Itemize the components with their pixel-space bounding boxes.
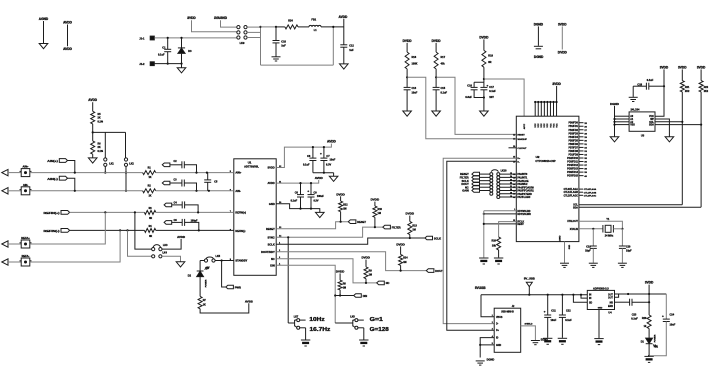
ground below C20 [618,262,627,264]
svg-text:10k: 10k [492,244,497,247]
svg-text:10uF: 10uF [412,92,418,95]
wires header to U2 PA pins [500,173,517,175]
svg-text:DVDD: DVDD [432,39,442,43]
svg-text:VCC: VCC [649,116,654,118]
svg-text:1M: 1M [403,261,406,264]
svg-text:C19: C19 [586,246,591,249]
svg-text:SCL: SCL [573,205,578,207]
connector arrow REFA- row [2,259,8,265]
connector arrow AIN+ row [2,169,8,175]
svg-text:PA1/INT1: PA1/INT1 [517,176,528,179]
link LK9 3-pin jumper block [237,26,240,29]
flag DIN [354,294,362,298]
svg-text:ERR: ERR [608,306,613,308]
ground below C13 [403,111,412,116]
svg-text:3: 3 [492,328,493,330]
svg-text:3VDD: 3VDD [678,65,687,69]
wire REFIN- line [70,229,145,231]
svg-text:19: 19 [513,146,515,148]
svg-text:AVDD: AVDD [63,47,72,51]
pin CLKOUT of U2 [509,147,517,149]
svg-text:CTL1/FLAGB: CTL1/FLAGB [564,191,579,194]
svg-text:PA3/WU2: PA3/WU2 [517,183,528,186]
svg-text:AVDD: AVDD [268,181,275,185]
resistor R3 0R [144,210,155,214]
svg-text:AVCC: AVCC [523,123,526,129]
link LK3 [152,248,155,251]
wire AVDD pin to tie [276,180,319,183]
svg-text:U3: U3 [641,134,645,138]
wire GND pin to ground [276,204,320,213]
wire RESV to node [484,223,517,225]
svg-text:AVSS: AVSS [245,299,253,303]
svg-text:3VDD: 3VDD [697,65,706,69]
svg-text:0.1uF: 0.1uF [158,53,165,56]
svg-text:PWR: PWR [235,285,241,289]
wire U3 address pins to ground [614,106,616,137]
svg-text:DVDD: DVDD [558,50,568,54]
svg-text:R22: R22 [704,86,709,89]
svg-text:2K: 2K [98,117,101,120]
svg-text:24: 24 [510,175,512,178]
wire R3 to U1 REFIN+ [156,211,234,213]
svg-text:POWER: POWER [206,279,208,287]
svg-text:22: 22 [510,183,512,185]
svg-text:R14: R14 [403,257,408,260]
svg-text:100K: 100K [412,62,418,65]
svg-text:1uF: 1uF [281,45,286,48]
capacitor C10 1uF [275,26,277,28]
svg-text:VCC: VCC [544,123,546,128]
wire REFIN+ to LK3 [135,212,152,249]
svg-text:REFIN(-): REFIN(-) [235,230,245,233]
svg-text:G=128: G=128 [370,327,389,333]
wire branch3 to U2 AVCC [484,79,524,116]
svg-text:18: 18 [510,196,512,198]
svg-text:DGND: DGND [610,102,620,106]
svg-text:0.1uF: 0.1uF [303,164,310,167]
svg-text:VBUS: VBUS [496,317,503,319]
svg-text:LK4: LK4 [162,251,167,254]
svg-text:6.8uF: 6.8uF [465,96,472,99]
svg-text:20: 20 [510,189,512,191]
wire U3 WP to ground [655,119,669,137]
svg-text:24LC64: 24LC64 [631,109,641,112]
flag PWR [222,261,226,288]
svg-text:R21: R21 [685,86,690,89]
diode D3 [181,38,183,48]
svg-text:C24: C24 [670,313,675,316]
svg-text:DVDD: DVDD [371,198,380,202]
svg-text:DVDD: DVDD [396,242,405,246]
label G=128 [358,327,364,329]
svg-text:10uF: 10uF [330,159,336,162]
ground below D1 [644,355,653,357]
ground below RDY node [479,257,488,259]
svg-text:1: 1 [492,315,493,317]
svg-text:DGND: DGND [534,55,544,59]
svg-text:5V_USB: 5V_USB [524,277,535,281]
svg-text:STANDBY: STANDBY [235,260,247,263]
svg-text:R12: R12 [343,203,348,206]
svg-text:10V: 10V [489,96,494,99]
svg-text:POWER: POWER [655,334,657,342]
svg-text:OUT: OUT [608,297,613,299]
svg-text:2: 2 [492,322,493,324]
svg-text:LK1: LK1 [109,162,114,165]
svg-text:42: 42 [513,133,515,136]
flag NC [377,281,385,285]
ground below LK7 [301,339,310,341]
wire DPLUS from U2 to J2 [443,158,516,323]
wire GND pin to DGND [480,345,494,358]
wire LK9 outputs to AVDD node [247,26,260,28]
ground DGND symbol [534,45,543,47]
wire R1 to U1 AIN+ [156,172,234,174]
svg-text:C16: C16 [467,84,472,87]
label G=1 [358,319,364,321]
capacitor C8 0.1uF [312,147,314,158]
wire RDY1 to pulldown node [484,213,517,215]
svg-text:+: + [320,152,322,156]
svg-text:AIN+: AIN+ [23,165,29,169]
svg-text:1M: 1M [378,212,381,215]
svg-text:LK2: LK2 [129,162,134,165]
svg-text:PB3/FD3: PB3/FD3 [568,133,578,135]
wire U3 SCL [655,121,682,123]
ground below U3 A-pins [610,137,619,142]
svg-text:C10: C10 [281,40,286,43]
svg-text:AVDD: AVDD [88,98,97,102]
ground AGND below LK4 [176,262,185,267]
svg-text:0.1uF: 0.1uF [631,318,638,321]
svg-text:6.3V: 6.3V [314,200,319,203]
svg-text:AIN-: AIN- [23,183,28,187]
svg-text:AVDD: AVDD [339,15,348,19]
svg-text:+: + [662,314,664,318]
svg-text:OUT: OUT [608,294,613,296]
svg-text:DGND: DGND [534,22,544,26]
svg-text:43k: 43k [441,62,446,65]
resistor R20 1k [648,294,650,315]
svg-text:2K2: 2K2 [685,90,690,93]
flag and capacitor C3 on AIN- [162,181,170,185]
svg-text:CTL2/FLAGC: CTL2/FLAGC [584,194,597,197]
svg-text:DOUT: DOUT [435,269,443,273]
svg-text:+: + [307,189,309,193]
svg-text:IN: IN [589,294,592,296]
ground below C15 [432,111,441,116]
svg-text:SDA: SDA [573,206,578,209]
wire STANDBY to LK5 [215,260,234,262]
wire LK8 to ground [363,328,365,340]
resistor R6 2K 0.1% [91,141,95,154]
led D1 POWER [648,329,650,339]
svg-text:D-: D- [496,324,499,326]
svg-text:DIN: DIN [363,294,368,298]
capacitor C15 0.1uF [435,77,437,87]
flag and capacitor C2 on AIN+ [162,163,170,167]
resistor R16 10k [497,237,501,250]
svg-text:R16: R16 [492,240,497,243]
svg-text:REFIN(+): REFIN(+) [44,211,60,215]
ground below J2 [476,360,485,362]
testpoint REFA- [21,258,30,266]
svg-text:PB6/FD6: PB6/FD6 [568,144,578,146]
capacitor C19 10pF [592,229,594,246]
svg-text:PA7/FLAGD: PA7/FLAGD [517,196,530,199]
svg-text:RDY1/SLWR: RDY1/SLWR [517,214,531,216]
svg-text:0.1uF: 0.1uF [489,90,496,93]
link LK1 [104,132,106,158]
resistor R7 1K [198,296,202,308]
svg-text:PA0/INT0: PA0/INT0 [517,173,528,176]
svg-text:16.7Hz: 16.7Hz [310,327,331,333]
flag and capacitor C4 on REFIN+ [164,203,172,207]
svg-text:+: + [487,83,489,87]
svg-text:DIN: DIN [270,263,275,267]
capacitor C22 0.1uF [561,295,563,315]
svg-text:3VDD: 3VDD [645,281,654,285]
svg-text:NC: NC [271,257,275,261]
svg-text:1M: 1M [412,229,415,232]
ground below C11 [543,337,552,339]
svg-text:G=1: G=1 [370,317,383,323]
svg-text:0.1uF: 0.1uF [291,200,298,203]
wire REFA+ to REFIN+ line [30,212,106,244]
svg-text:1K: 1K [203,303,206,306]
wire SVDD to AVDD tie [276,144,331,168]
svg-text:+: + [544,310,546,314]
svg-text:U2: U2 [536,155,540,159]
svg-text:DVDD: DVDD [336,269,345,273]
capacitor C12 1uF [340,44,347,46]
wire RDY0 to pulldown node [484,210,517,212]
svg-text:DVDD: DVDD [336,192,345,196]
svg-text:VCC: VCC [547,123,549,128]
flag FILTER [383,225,391,229]
svg-text:PB7/FD7: PB7/FD7 [568,147,578,149]
svg-text:C23: C23 [632,314,637,317]
resistor R18 100K [406,43,408,52]
svg-text:PA2/SLOE: PA2/SLOE [517,180,529,183]
svg-text:C20: C20 [626,246,631,249]
svg-text:PD2/FD10: PD2/FD10 [567,158,578,160]
svg-text:5VUSB: 5VUSB [475,286,486,290]
svg-text:REFIN(-): REFIN(-) [44,229,60,233]
svg-text:PB2/FD2: PB2/FD2 [568,130,578,132]
ground below U4 [594,338,603,340]
wire R7 to AVSS [200,303,249,313]
wire R4 to U1 REFIN- [156,229,234,231]
svg-text:PB4/FD4: PB4/FD4 [568,136,578,139]
svg-text:AIN(+): AIN(+) [47,159,58,163]
svg-text:XTALIN: XTALIN [570,228,578,231]
svg-text:GAIN: GAIN [462,189,469,193]
svg-text:NR: NR [610,302,614,304]
svg-text:SDA: SDA [649,124,654,127]
svg-text:SHIELD: SHIELD [524,324,532,326]
wire AIN+ line [30,172,143,174]
svg-text:VSS: VSS [630,125,635,127]
wire ID pin [480,338,494,345]
svg-text:DVDD: DVDD [403,39,413,43]
svg-text:C12: C12 [349,45,354,48]
svg-text:2K2: 2K2 [704,90,709,93]
wire IN2 pin of U4 [581,295,587,298]
svg-text:C22: C22 [566,309,571,312]
wire return loop bottom [261,64,334,66]
svg-text:PD5/FD13: PD5/FD13 [567,169,578,171]
svg-text:LK3: LK3 [163,244,168,247]
resistor R5 2K 0.1% [91,111,95,124]
adc U1 AD7730/30L [234,159,276,275]
svg-text:J1-2: J1-2 [139,62,145,66]
svg-text:REFIN(+): REFIN(+) [235,212,246,215]
flag DOUT [426,269,434,273]
wire U3 SDA [655,124,701,126]
svg-text:1K: 1K [148,176,151,179]
flag RESET [348,220,356,224]
svg-text:CY7C68013-CSP: CY7C68013-CSP [535,159,556,163]
svg-text:PB5/FD5: PB5/FD5 [568,140,578,142]
svg-text:PD6/FD14: PD6/FD14 [567,171,578,174]
ground below C16 C17 [483,98,485,112]
svg-text:LK5: LK5 [216,255,221,258]
svg-text:CTL1/FLAGB: CTL1/FLAGB [584,191,597,194]
wire OUT rail [615,293,667,295]
svg-text:LK8: LK8 [350,316,355,319]
wire SCL vertical [681,92,683,205]
svg-text:CTL2/FLAGC: CTL2/FLAGC [564,194,579,197]
svg-text:SCL: SCL [649,122,654,124]
svg-text:DOUT/RDY: DOUT/RDY [261,250,275,254]
svg-text:R24: R24 [288,19,293,22]
svg-text:VCC: VCC [553,123,555,128]
svg-text:ADP3303-3.3: ADP3303-3.3 [593,286,609,290]
testpoint AIN- [21,187,30,195]
svg-text:VCC: VCC [550,123,552,128]
svg-text:0.1uF: 0.1uF [565,319,572,322]
svg-text:24 MHz: 24 MHz [605,234,614,237]
svg-text:RESET: RESET [266,227,275,231]
connector arrow REFA+ row [2,241,8,247]
wire DIN net [276,265,335,323]
svg-text:3VAGND: 3VAGND [214,16,228,20]
svg-text:SYNC: SYNC [267,235,274,239]
svg-text:VCC: VCC [541,123,543,128]
wire REFIN- to LK4 [128,230,152,256]
ground below C18 [632,86,634,97]
svg-text:R10: R10 [378,208,383,211]
svg-text:3VDD: 3VDD [187,16,196,20]
ground below C6 C9 [316,212,325,217]
capacitor C20 10pF [621,229,623,246]
svg-text:C11: C11 [551,309,556,312]
svg-text:U1: U1 [248,160,252,164]
svg-text:25: 25 [510,173,512,175]
svg-text:RESET: RESET [517,135,525,137]
svg-text:19: 19 [510,192,512,194]
svg-text:DVDD: DVDD [361,256,370,260]
flag SCLK [425,236,433,240]
svg-text:IN: IN [589,298,592,300]
svg-text:R20: R20 [642,317,647,320]
ground below R6 [88,158,97,163]
wire LK5 to D2 [200,260,204,262]
label 16.7Hz [300,327,306,329]
svg-text:SCLK: SCLK [268,242,275,246]
wire LK3 to AVDD tie [162,239,181,249]
svg-text:PA4/FIFOADR0: PA4/FIFOADR0 [517,186,534,189]
svg-text:WAKEUP: WAKEUP [517,138,527,141]
svg-text:PD1/FD9: PD1/FD9 [568,154,578,156]
resistor R1 1K [143,171,156,175]
capacitor C24 10uF [665,294,667,319]
svg-text:PB1/FD1: PB1/FD1 [568,126,578,128]
ground AGND below C12 [340,64,349,69]
svg-text:PD0/FD8: PD0/FD8 [568,151,578,153]
wire NC net [276,259,377,283]
svg-text:0.1uF: 0.1uF [441,92,448,95]
ground below R16 [494,257,503,259]
svg-text:R13: R13 [412,224,417,227]
wire branch1 to U2 WAKEUP [407,77,516,138]
svg-text:AD7730/30L: AD7730/30L [244,165,259,169]
pins PB and PD of U2 right side [579,122,584,124]
resistor R4 0R [144,228,155,232]
svg-text:SVDD: SVDD [267,166,274,170]
svg-text:REFA-: REFA- [22,254,30,258]
wire divider mid node [93,131,126,133]
wire decoupling rail to ground [313,172,334,174]
label 10Hz [300,319,306,321]
ground below shield [531,340,540,342]
svg-text:AGND: AGND [39,17,49,21]
resistor R2 1K [143,189,156,193]
svg-text:C13: C13 [412,87,417,90]
wire LK7 to ground [305,328,307,340]
svg-text:LK9: LK9 [240,42,245,45]
wire 3VAGND to LK9 row1 [221,20,237,27]
capacitor C16 6.8uF [474,79,484,87]
wire 5V rail [481,294,587,296]
wire VBUS drop [481,295,494,317]
wire FILTER to LK7 switch [287,237,289,323]
wire L1 to AVDD node [321,26,344,28]
svg-text:1K: 1K [148,194,151,197]
wire SDA vertical [700,92,702,207]
ground below LK8 [359,339,368,341]
svg-text:0R: 0R [149,235,152,238]
svg-text:LK10: LK10 [501,169,508,172]
svg-text:DVDD: DVDD [406,212,415,216]
wire branch2 to U2 RESET [436,77,516,134]
svg-text:10uF: 10uF [670,324,676,327]
wire R24 to L1 [298,26,309,28]
svg-text:SCLK: SCLK [434,236,441,240]
wire SHIELD to ground [521,326,536,340]
svg-text:10uF: 10uF [551,319,557,322]
svg-text:D-: D- [517,161,520,163]
wire 3VDD to LK9 row2 [192,20,237,32]
ground below C22 [558,337,567,339]
svg-text:AIN(-): AIN(-) [47,177,58,181]
mcu U2 CY7C68013-CSP [516,116,579,241]
svg-text:1uF: 1uF [349,49,354,52]
svg-text:GND: GND [496,345,501,347]
svg-text:AVDD: AVDD [315,176,323,180]
